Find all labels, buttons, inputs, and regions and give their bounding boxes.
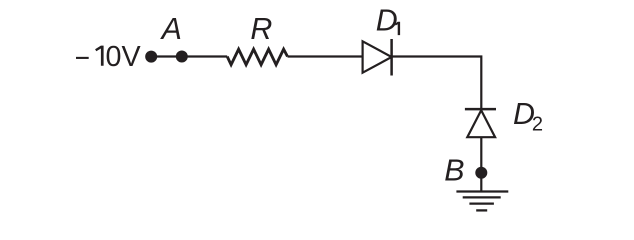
wire D1 to corner and down to D2 (392, 57, 482, 110)
diode D1 triangle (363, 41, 392, 72)
value label "-10V": digit 1 and text 0V (95, 46, 104, 66)
diode D1 cathode bar (390, 39, 393, 76)
ground line 4 (476, 209, 487, 211)
svg-text:B: B (444, 154, 464, 188)
node A terminal dot left (145, 51, 157, 63)
svg-text:0V: 0V (106, 41, 142, 73)
svg-text:2: 2 (532, 114, 543, 136)
value label "-10V": minus sign (76, 57, 89, 59)
label D1 subscript 1 (395, 22, 400, 35)
wire node A to resistor (182, 55, 227, 57)
svg-text:D: D (376, 3, 398, 37)
resistor R (227, 49, 287, 64)
svg-text:A: A (160, 12, 182, 46)
ground line 3 (469, 202, 494, 204)
node A dot (176, 51, 188, 63)
ground line 2 (463, 196, 501, 198)
wire resistor to diode D1 (288, 55, 363, 57)
node B dot (475, 167, 487, 179)
svg-text:R: R (250, 12, 272, 46)
diode D2 triangle (467, 110, 495, 137)
ground line 1 (456, 190, 508, 192)
wire from left terminal to node A (151, 55, 182, 57)
wire D2 to node B (480, 137, 482, 191)
diode D2 cathode bar (465, 108, 496, 111)
